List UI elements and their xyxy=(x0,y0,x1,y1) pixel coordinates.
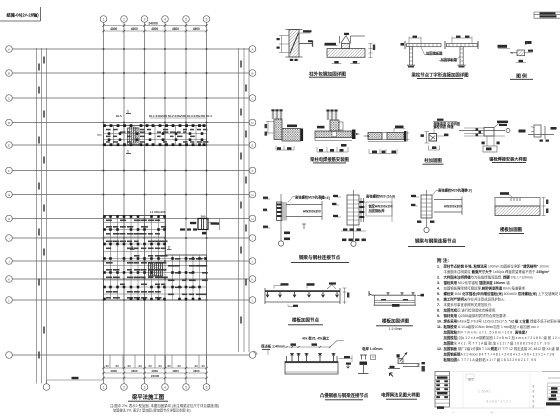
svg-text:6: 6 xyxy=(206,17,208,21)
svg-text:2.: 2. xyxy=(437,275,440,279)
svg-text:加固钢板需除锈打磨处理,刷防锈漆两道 8mm.每道要求.: 加固钢板需除锈打磨处理,刷防锈漆两道 8mm.每道要求. xyxy=(444,285,527,290)
detail: steel beam to column bolted joint (r3c1) xyxy=(263,194,330,246)
caption 锚栓安装大样图 xyxy=(489,156,527,163)
svg-text:4800: 4800 xyxy=(172,369,179,373)
svg-text:楼板加固图: 楼板加固图 xyxy=(500,226,523,233)
upper building outline xyxy=(104,126,207,146)
svg-text:粘钢胶采 A.1/1a级胶JGNxx 8mm加压 1: 粘钢胶采 A.1/1a级胶JGNxx 8mm加压 1 mm粘贴 x 级加固 xx… xyxy=(443,324,539,329)
detail: beam strengthening section (r1c2) xyxy=(324,33,375,64)
svg-text:3: 3 xyxy=(144,17,146,21)
plan notes line under caption xyxy=(110,403,219,413)
plan horizontal grid lines with bubbles xyxy=(6,46,256,304)
svg-text:A: A xyxy=(251,47,253,51)
detail: rebar planting bracket (r2c6) xyxy=(519,125,557,142)
bottom-right signature table xyxy=(435,372,450,409)
right dimension chain lines xyxy=(239,48,250,352)
lower building internal beam grid xyxy=(104,216,207,301)
svg-text:加固钢板焊: 加固钢板焊 xyxy=(368,208,386,213)
svg-text:H: H xyxy=(8,217,10,221)
svg-text:加固胶水 4 x 1 . 可 T T 1 A 级 胶 加 x: 加固胶水 4 x 1 . 可 T T 1 A 级 胶 加 x 1 2 / 7 级… xyxy=(443,340,551,345)
plan caption 梁平法施工图 xyxy=(128,393,168,401)
svg-text:24: 24 xyxy=(148,364,152,368)
left dimension chain lines xyxy=(37,48,47,384)
bottom-right faint title block lines xyxy=(440,372,560,415)
upper building beam annotation dashes xyxy=(106,129,209,143)
svg-text:K: K xyxy=(8,277,10,281)
svg-text:梁柱节点粘钢 补强, 粘钢法采 100mm 加固部位净距: 梁柱节点粘钢 补强, 粘钢法采 100mm 加固部位净距 "建筑结构" 10mm xyxy=(443,263,549,268)
upper building column blocks xyxy=(103,124,205,146)
bottom-right sheet number block xyxy=(466,372,560,406)
svg-text:钢梁与钢梁连接节点: 钢梁与钢梁连接节点 xyxy=(415,237,457,244)
svg-text:4800: 4800 xyxy=(151,369,158,373)
caption 钢梁与钢柱连接节点 xyxy=(291,254,349,263)
svg-text:24: 24 xyxy=(167,364,171,368)
caption 梁柱节点丁字形加固详图 xyxy=(410,71,469,78)
svg-text:HW300x300: HW300x300 xyxy=(303,209,321,213)
caption 楼板加固节点 xyxy=(288,317,323,325)
svg-text:KL1 240x500 KL2 240x500 KL3: KL1 240x500 KL2 240x500 KL3 240x450 KL4 xyxy=(149,114,212,118)
detail: tee joint frame 2 (r1c3b) xyxy=(439,36,478,68)
svg-text:5.: 5. xyxy=(437,292,440,296)
detail: legend symbol (r1c4) xyxy=(498,41,534,63)
svg-text:[10.9]: [10.9] xyxy=(463,189,472,193)
svg-text:加固胶层(:加x 1 2 x 4 m钢筋加固 1 2 x 8: 加固胶层(:加x 1 2 x 4 m钢筋加固 1 2 x 8 m 2 加 x m… xyxy=(443,335,560,340)
bottom-left extra dimension line 1500 xyxy=(47,377,104,384)
lower building outline polygon xyxy=(104,216,207,301)
bottom dimension chains under plan xyxy=(102,355,207,379)
caption 楼板加固图 xyxy=(499,226,524,233)
svg-text:4800: 4800 xyxy=(193,27,200,31)
svg-text:施工时严禁明火作业并注意成品保护防火.: 施工时严禁明火作业并注意成品保护防火. xyxy=(444,296,506,301)
svg-text:4800: 4800 xyxy=(172,27,179,31)
svg-text:4 x 4 a ° 1 x 2 1: 4 x 4 a ° 1 x 2 1 xyxy=(486,400,511,404)
svg-text:3.: 3. xyxy=(437,281,440,285)
svg-text:7.: 7. xyxy=(437,303,440,307)
svg-text:1 :50/41: 1 :50/41 xyxy=(478,390,490,394)
svg-text:24: 24 xyxy=(194,364,198,368)
svg-text:加固做法 2%: 表示2 型加固 (梁加固节点详图见本图 右: 加固做法 2%: 表示2 型加固 (梁加固节点详图见本图 右) xyxy=(113,408,191,413)
svg-text:E: E xyxy=(251,143,253,147)
svg-text:9.: 9. xyxy=(437,314,440,318)
lower building column blocks xyxy=(103,215,207,300)
detail: slab strengthening profile (L) xyxy=(369,291,424,307)
top-right project name table xyxy=(534,12,560,18)
svg-text:24: 24 xyxy=(158,364,162,368)
svg-text:加固钢板箍: 加固钢板箍 xyxy=(425,51,443,56)
svg-text:4800: 4800 xyxy=(110,369,117,373)
detail: slab strengthening section (r3c4) xyxy=(495,192,548,215)
svg-text:柱加固图: 柱加固图 xyxy=(424,157,442,164)
svg-text:2: 2 xyxy=(131,246,133,250)
svg-text:大样图未注明焊缝均为贴角焊缝双面焊, 焊脚 t?8, L: 大样图未注明焊缝均为贴角焊缝双面焊, 焊脚 t?8, L=120mm. xyxy=(444,274,534,279)
detail: plate weld arrow diagram (O) xyxy=(388,352,420,377)
caption 柱外包钢加固详图 xyxy=(309,70,346,77)
svg-text:本图未尽事宜参照有关规范执行.: 本图未尽事宜参照有关规范执行. xyxy=(444,302,492,307)
svg-text:HW300x300: HW300x300 xyxy=(444,204,462,208)
svg-text:6: 6 xyxy=(206,385,208,389)
notes side mark xyxy=(422,362,425,372)
svg-text:4800: 4800 xyxy=(193,369,200,373)
caption 电焊网法见图大样图 xyxy=(381,391,420,399)
svg-text:550: 550 xyxy=(97,133,102,137)
upper building stair core hatch xyxy=(128,127,140,145)
svg-text:2: 2 xyxy=(123,385,125,389)
svg-text:24: 24 xyxy=(105,364,109,368)
svg-text:4: 4 xyxy=(164,385,166,389)
svg-text:F: F xyxy=(8,169,10,173)
svg-text:加固钢板 钢厂Z级1分钢B T 13t 规定4T 77T 1: 加固钢板 钢厂Z级1分钢B T 13t 规定4T 77T 12 规定连接 2C … xyxy=(443,346,560,351)
svg-text:4800: 4800 xyxy=(110,27,117,31)
detail: beam splice section (r2c3) xyxy=(364,126,410,154)
svg-text:B: B xyxy=(8,71,10,75)
svg-text:24: 24 xyxy=(177,364,181,368)
plan vertical grid bottom bubbles xyxy=(43,384,210,391)
svg-text:E: E xyxy=(8,143,10,147)
svg-text:3: 3 xyxy=(144,385,146,389)
svg-text:钢材采用 Q235B级钢材质须符合规范要求.: 钢材采用 Q235B级钢材质须符合规范要求. xyxy=(444,313,507,318)
svg-text:300: 300 xyxy=(201,215,206,219)
svg-text:1: 1 xyxy=(103,17,105,21)
detail: column steel jacket section (r1c1) xyxy=(277,30,313,62)
svg-text:24: 24 xyxy=(127,364,131,368)
svg-text:40x 楔25, 45x施工: 40x 楔25, 45x施工 xyxy=(302,335,330,340)
svg-text:锚栓采用 M12化学锚栓 锚固深度 150mm 锚.: 锚栓采用 M12化学锚栓 锚固深度 150mm 锚. xyxy=(444,280,511,285)
svg-text:F: F xyxy=(252,169,254,173)
svg-text:5: 5 xyxy=(185,385,187,389)
svg-text:[10.9]: [10.9] xyxy=(321,196,330,200)
svg-text:24: 24 xyxy=(201,364,205,368)
svg-text:5: 5 xyxy=(185,17,187,21)
svg-text:梁柱节点丁字形连接加固详图: 梁柱节点丁字形连接加固详图 xyxy=(410,71,469,78)
svg-text:24000: 24000 xyxy=(148,21,158,25)
svg-text:4a: 4a xyxy=(490,411,494,415)
svg-text:加固钢板箍: 加固钢板箍 xyxy=(440,57,458,62)
svg-text:柱外包钢加固详图: 柱外包钢加固详图 xyxy=(309,70,346,77)
svg-text:加固完成后 进行检测验收合格使用.: 加固完成后 进行检测验收合格使用. xyxy=(443,307,497,312)
detail: tee joint frame 1 (r1c3) xyxy=(401,36,444,68)
notes block 附注 xyxy=(437,257,560,362)
title tab top-left xyxy=(0,7,41,21)
svg-text:K: K xyxy=(251,277,253,281)
svg-text:凸侵钢板与钢梁连接节点: 凸侵钢板与钢梁连接节点 xyxy=(320,392,369,399)
svg-text:1.: 1. xyxy=(437,264,440,268)
svg-text:8.: 8. xyxy=(437,308,440,312)
svg-text:加固胶粘剂 F ? m x m . s = 1 . 5 x: 加固胶粘剂 F ? m x m . s = 1 . 5 x 8 m = 1 0 … xyxy=(443,329,528,334)
svg-text:4800: 4800 xyxy=(151,27,158,31)
svg-text:2: 2 xyxy=(123,17,125,21)
caption 凸侵钢板与钢梁连接节点 xyxy=(320,392,369,400)
caption 钢梁与钢梁连接节点 xyxy=(408,237,465,246)
grid line junction dots xyxy=(103,48,208,301)
svg-text:电焊网法见图大样图: 电焊网法见图大样图 xyxy=(381,391,420,398)
svg-text:电焊 1:40mm: 电焊 1:40mm xyxy=(362,346,383,351)
svg-text:H: H xyxy=(251,217,253,221)
svg-text:加固钢板规A 2 1 4xxxx 8 4 T 7: 加固钢板规A 2 1 4xxxx 8 4 T 7 + 4 8 1 + 2 0 8… xyxy=(443,351,555,356)
svg-text:现浇板 1:40mm: 现浇板 1:40mm xyxy=(261,344,285,349)
plan vertical grid lines with top bubbles xyxy=(100,16,210,384)
svg-text:图号: 图号 xyxy=(468,377,474,382)
svg-text:10.: 10. xyxy=(437,319,442,323)
caption 梁柱电焊接筋安装图 xyxy=(309,156,349,163)
svg-text:1:1=5mm: 1:1=5mm xyxy=(389,327,403,331)
svg-text:螺栓间距 焊缝: 螺栓间距 焊缝 xyxy=(434,124,455,129)
svg-text:梁平法施工图: 梁平法施工图 xyxy=(131,393,165,401)
svg-text:注:图中 2%: 表示2 型加固, 本图加固梁均 (未注明梁: 注:图中 2%: 表示2 型加固, 本图加固梁均 (未注明梁定位尺寸详见建施 图… xyxy=(110,403,219,408)
svg-text:4: 4 xyxy=(164,17,166,21)
svg-text:11.: 11. xyxy=(437,325,442,329)
faint center drawing title in title block xyxy=(468,377,474,382)
svg-text:KL5: KL5 xyxy=(116,114,122,118)
lower building beam annotation blobs xyxy=(106,220,208,299)
svg-text:结施-06(2#-28轴): 结施-06(2#-28轴) xyxy=(7,12,40,19)
svg-text:1: 1 xyxy=(127,110,129,114)
lower building stair core hatch xyxy=(149,263,163,277)
svg-text:12.: 12. xyxy=(437,347,442,351)
lower long horizontal grid line xyxy=(6,352,256,359)
column reinforcement detail on plan xyxy=(180,215,220,235)
caption 柱加固图 xyxy=(423,157,444,164)
caption 图例 xyxy=(510,72,533,79)
svg-text:钢梁与钢柱连接节点: 钢梁与钢柱连接节点 xyxy=(299,254,341,261)
svg-text:24: 24 xyxy=(115,364,119,368)
detail: slab anchor row section (K) xyxy=(265,282,349,307)
svg-text:24000: 24000 xyxy=(151,374,160,378)
top dimension lines of plan xyxy=(102,21,207,32)
svg-text:6.: 6. xyxy=(437,297,440,301)
svg-text:2: 2 xyxy=(168,246,170,250)
svg-text:附 注:: 附 注: xyxy=(437,257,449,264)
svg-text:图 例: 图 例 xyxy=(516,72,527,79)
svg-text:1: 1 xyxy=(127,150,129,154)
upper building section mark 1-1 xyxy=(97,110,131,154)
svg-text:锚栓焊接安装大样图: 锚栓焊接安装大样图 xyxy=(489,156,527,163)
svg-text:4800: 4800 xyxy=(131,27,138,31)
svg-text:4800: 4800 xyxy=(131,369,138,373)
svg-text:高强螺栓M20 (10.9): 高强螺栓M20 (10.9) xyxy=(366,193,395,198)
svg-text:粘钢加固A. 7 T 7 1 A 级胶粘 x 1 / 7 级: 粘钢加固A. 7 T 7 1 A 级胶粘 x 1 / 7 级 1 8 3 2 2… xyxy=(443,357,538,362)
detail: steel beam to beam bolted joint (r3c3) xyxy=(411,187,472,232)
detail: steel column splice bolted joint (r3c2) xyxy=(332,190,395,246)
svg-text:钢梁HW300x300: 钢梁HW300x300 xyxy=(369,203,393,208)
svg-text:L1 240x400: L1 240x400 xyxy=(150,210,166,214)
svg-text:24: 24 xyxy=(138,364,142,368)
svg-text:B: B xyxy=(251,71,253,75)
svg-text:梁柱电焊接筋安装图: 梁柱电焊接筋安装图 xyxy=(309,156,349,163)
detail: corner joint with anchors (r2c1) xyxy=(265,109,304,150)
svg-text:楼板加固节点: 楼板加固节点 xyxy=(292,317,319,324)
svg-text:焊条采用E43xx型 t=6.8号 L1x5x3.15x17: 焊条采用E43xx型 t=6.8号 L1x5x3.15x17.5. "x2 级 … xyxy=(443,318,560,323)
svg-text:螺栓采 M16 化学锚栓(中间增设锚栓(米) 6: 螺栓采 M16 化学锚栓(中间增设锚栓(米) 600x600 双排螺栓(米) 上… xyxy=(444,291,560,296)
detail: column X-brace symbol (r2c4) xyxy=(421,119,460,150)
detail: welded I-beam section (N) xyxy=(358,346,383,373)
svg-text:A: A xyxy=(8,47,10,51)
upper building beam labels row xyxy=(116,114,212,118)
svg-text:楼板加固详图: 楼板加固详图 xyxy=(382,318,409,325)
caption 楼板加固详图 xyxy=(376,318,413,331)
svg-text:1: 1 xyxy=(103,385,105,389)
svg-text:4.: 4. xyxy=(437,286,440,290)
detail: anchor bolt assembly (r2c5) xyxy=(459,121,510,152)
detail: steel plate on beam with studs (M) xyxy=(253,335,352,374)
svg-text:平面图未注明梁柱 截面尺寸大于 1x50pa.焊缝质量等级: 平面图未注明梁柱 截面尺寸大于 1x50pa.焊缝质量等级不低于 235g/m² xyxy=(444,269,551,274)
detail: tee joint with anchors (r2c2) xyxy=(315,110,360,153)
lower building section marks xyxy=(130,210,172,250)
